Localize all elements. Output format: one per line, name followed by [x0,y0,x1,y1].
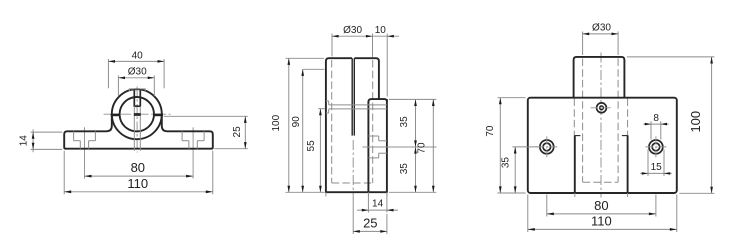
dim 15 outside arrows [642,172,670,175]
notch ticks [575,135,581,137]
body outline: base plate right part [162,114,213,149]
back plate front face edge [367,102,369,192]
dim 100 line [711,57,713,193]
slit relief notch on front face [326,100,329,102]
back plate top edge (ear) [368,99,387,103]
dim 110 line [64,191,213,193]
body outline: base plate bottom edge [65,148,212,150]
dim 70 line [432,99,434,192]
bore circle Ø30 [120,97,154,131]
left hole centerlines [536,146,557,148]
dim 100 line [288,58,290,192]
hidden bore lines [582,59,584,183]
right hole centerlines [645,146,666,148]
svg-text:10: 10 [375,25,387,36]
dim 10 outside arrow [387,35,394,38]
svg-text:35: 35 [399,163,410,175]
boss edge overshoot below plate bottom [574,193,576,197]
clamp screw hole: lower thread lines (thin) [133,106,135,151]
dim Ø30/10 extension lines [331,34,333,57]
body outline: base plate left part [64,114,112,149]
node: right mounting-hole centerline / extension [192,127,194,178]
dim 14 line [32,129,34,152]
dim 110 extension lines [527,195,529,233]
dim 80 line [85,175,194,177]
dim 80 line [547,213,656,215]
dim 70 arrows [432,99,435,192]
clamp screw hole (small circle) [597,103,607,113]
dim 35 lower line [415,147,417,192]
mounting hole in plate: counterbore top/bottom [368,135,378,137]
hidden bore back line [372,60,374,183]
dim 15 line with tails [640,172,672,174]
dim 80 arrows [547,213,656,216]
wire: horizontal centerline through bore [104,113,171,115]
back plate rear face overshoot [386,192,388,196]
dim 35 line [514,147,516,193]
svg-text:Ø30: Ø30 [343,25,362,36]
svg-text:15: 15 [651,162,663,173]
svg-text:Ø30: Ø30 [128,67,147,78]
dim 70 arrows [499,98,502,193]
left mounting hole: through hole [79,141,81,149]
svg-text:25: 25 [363,216,377,231]
left mounting hole: step [74,140,81,142]
dim 14 extension lines [31,131,63,133]
dim Ø30 arrows [118,76,154,79]
right mounting hole: through hole [188,141,190,149]
dim 80 extension lines [546,195,548,217]
wire: vertical centerline through bore/slot [136,87,138,153]
dim 90 line [302,69,304,192]
svg-text:35: 35 [399,116,410,128]
right mounting hole: step [182,140,189,142]
svg-text:14: 14 [372,199,384,210]
clamp screw centerline cross [591,107,613,109]
dims 100/90/55 extension lines [286,57,325,59]
svg-text:Ø30: Ø30 [592,23,611,34]
dim 40 extension lines [107,59,109,88]
dim 8 outside arrows [645,123,667,126]
dim 35 upper line [415,99,417,147]
svg-text:40: 40 [132,50,144,61]
svg-text:110: 110 [127,176,148,191]
svg-text:35: 35 [501,157,512,169]
clamp slot flat seat at top [129,89,145,91]
boss outer circle [112,89,162,139]
dim 90 arrows [301,69,304,192]
svg-text:70: 70 [417,142,428,154]
dim 25 arrows [244,116,247,148]
clamp screw hole: counterbore step [134,105,141,107]
dim 35 arrows [514,147,517,193]
dim 100 arrows [287,58,290,192]
clamp slit (vertical, from top) [351,58,353,135]
dim 14 arrows [32,132,35,149]
mounting hole centerline [363,146,437,148]
svg-text:8: 8 [653,113,659,124]
svg-text:14: 14 [19,135,30,147]
clamp screw hole: dark mark at centerline crossing [134,113,141,116]
svg-text:70: 70 [485,125,496,137]
left mounting hole: counterbore walls [73,131,75,140]
dim 100 extension lines [627,56,715,58]
dim Ø30 line [118,77,154,79]
right mounting hole: counterbore walls [181,131,183,140]
left mounting hole [540,140,554,154]
dim 55 arrows [319,109,322,193]
dim 25 extension lines [352,197,354,234]
dim 15 extension lines [647,150,649,176]
clamp screw hole lines (horizontal, hidden) [329,104,387,106]
hidden bore bottom [332,182,373,184]
top edge right rounded rect [354,58,379,99]
slit centerline [352,140,354,197]
dim 35 upper arrows [414,99,417,147]
dim Ø30 line [583,33,619,35]
boss visible edges below notch [574,135,576,193]
dim 100 arrows [710,57,713,193]
dim 35 lower arrows [414,147,417,192]
dim 25 arrows [353,230,387,233]
dim 55 line [319,109,321,193]
dim 110 arrows [64,190,213,193]
clamp screw hole: upper counterbore (thick) [133,89,135,106]
node: left mounting-hole centerline / extension [84,127,86,178]
hidden bore front line [331,60,333,183]
dim 25 line [244,116,246,148]
dim 8 line with tails [643,123,668,125]
side slit notch right [154,114,163,117]
column above plate [574,57,625,98]
dim 25 line [353,230,387,232]
dim 80 arrows [85,175,194,178]
dim 25 extension lines [164,115,248,117]
dim 40 arrows [108,60,164,63]
dims 35/35/70 extension lines [389,98,436,100]
hidden bore bottom [583,181,619,183]
dim Ø30 extension lines [117,75,119,96]
plate outline [528,98,677,193]
svg-text:80: 80 [594,198,608,213]
dim 8 extension lines [650,121,652,139]
dim 40 line [108,60,164,62]
dim 14 arrows [362,209,394,212]
side slit notch left [111,114,120,117]
dim Ø30/10 line [332,35,399,37]
dim 70 extension lines [498,97,526,99]
svg-text:90: 90 [291,116,302,128]
svg-text:25: 25 [232,126,243,138]
svg-text:100: 100 [271,114,282,131]
svg-text:100: 100 [688,111,703,133]
dim 70 line [499,98,501,193]
right mounting hole [649,140,663,154]
dim Ø30 arrows [332,35,373,38]
dim 35 extension line [512,146,538,148]
dim 110 extension lines [63,151,65,195]
dim 14 line [357,209,398,211]
svg-text:110: 110 [591,214,612,229]
dim 110 arrows [528,228,677,231]
mounting hole step wall [378,136,380,141]
dim Ø30 arrows [583,33,619,36]
body front edge overshoot below bottom [325,192,327,196]
column hidden edges below plate top [573,99,575,136]
svg-text:55: 55 [306,140,317,152]
dim Ø30 extension lines [582,32,584,56]
svg-text:80: 80 [131,160,145,175]
body outline left/top/bottom [326,58,387,192]
dim 110 line [528,228,677,230]
dim 14 extension lines [367,194,369,213]
mounting hole through bore [379,140,387,142]
vertical centerline [600,53,602,198]
